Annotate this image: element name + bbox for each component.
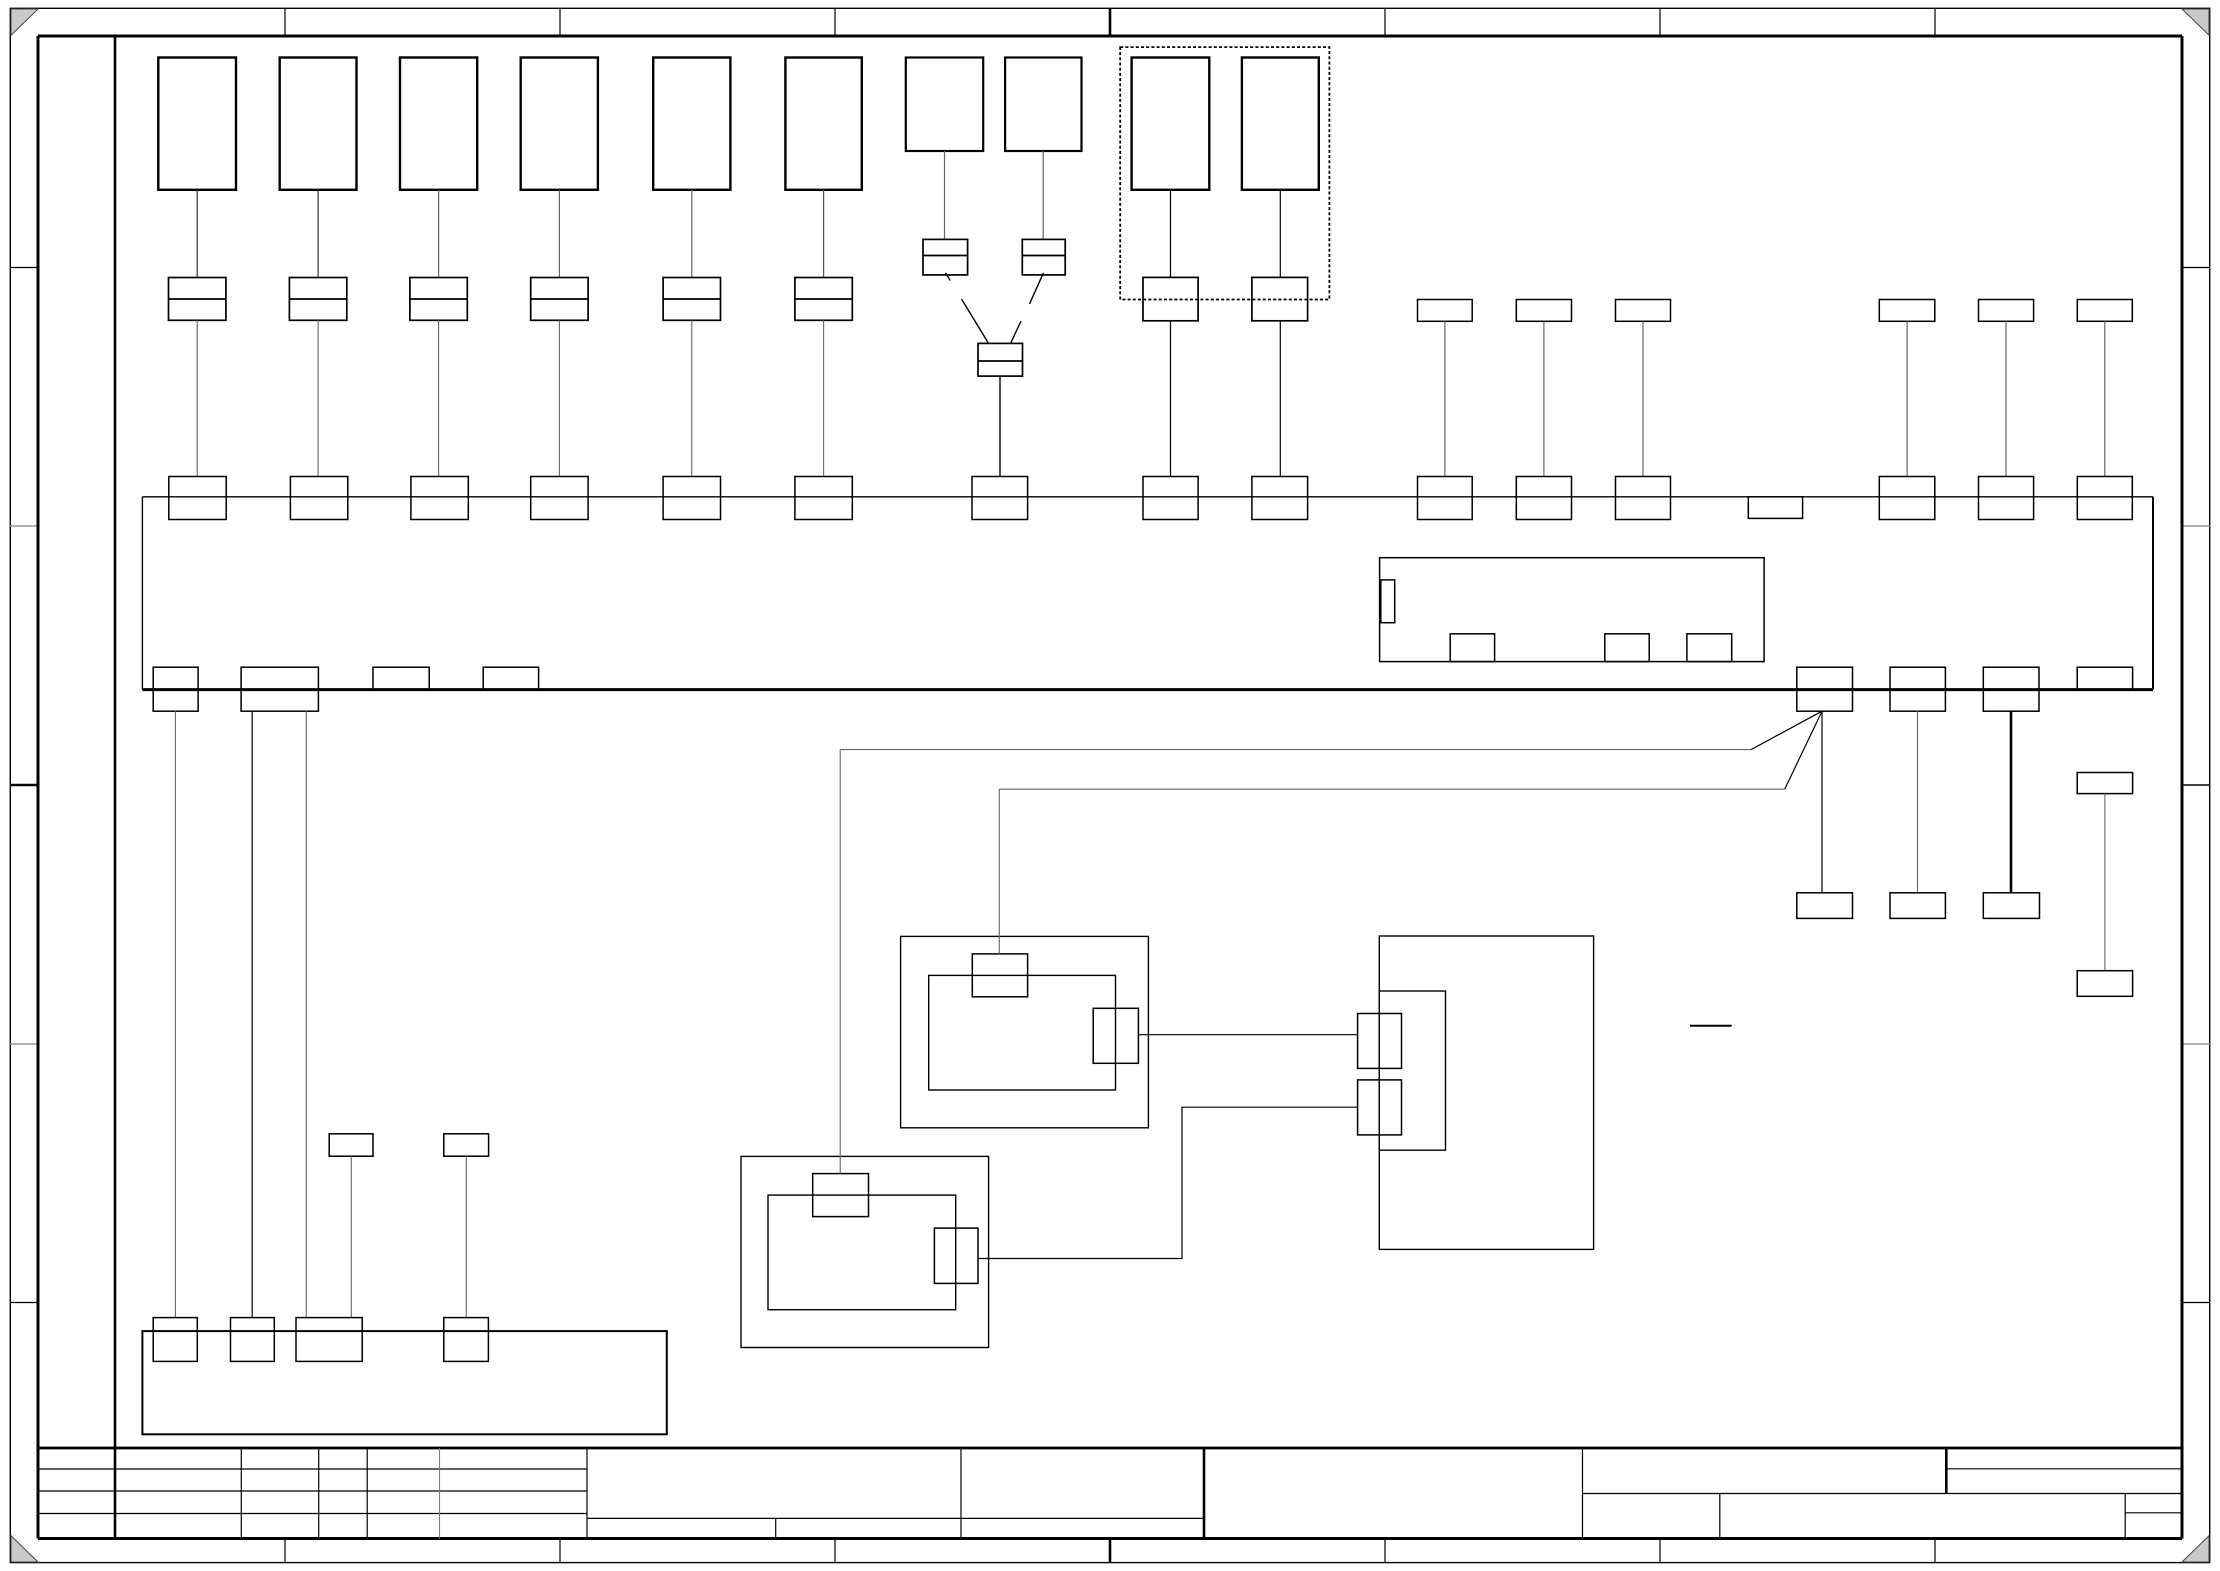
title bottom row line mid section	[587, 1517, 1204, 1519]
bus bottom edge thick	[142, 688, 2153, 691]
terminal box T6	[2077, 300, 2132, 322]
bus inlet box X11	[1516, 477, 1571, 520]
title right upper row line	[1946, 1468, 2182, 1470]
fuse box F10	[1143, 277, 1198, 320]
device A side port	[1093, 1008, 1138, 1063]
PLC rack U1	[1380, 558, 1765, 662]
title right mid line	[1583, 1493, 2183, 1495]
corner triangle bottom-right	[2182, 1536, 2209, 1562]
wire M2 to F2	[317, 190, 319, 278]
wire S3 down	[2104, 794, 2106, 971]
bus inlet box X3	[411, 477, 468, 520]
PLC rack bottom notch 1	[1450, 634, 1494, 662]
motor block M1	[158, 58, 236, 190]
terminal box T2	[1516, 300, 1571, 322]
wire Y2 down left	[251, 711, 253, 1317]
wire F11 to bus	[1279, 321, 1281, 477]
motor block M10	[1242, 58, 1319, 190]
terminal Z1	[1797, 893, 1853, 919]
wire M9 to F10	[1170, 190, 1172, 278]
bus inlet box X10	[1418, 477, 1473, 520]
title col line d	[439, 1448, 441, 1539]
bus outlet box Y1	[153, 667, 198, 711]
motor block M2	[280, 58, 357, 190]
corner triangle bottom-left	[11, 1536, 38, 1562]
bus top edge	[142, 496, 2153, 498]
device C outer	[1379, 936, 1593, 1249]
title block top thick line	[38, 1447, 2182, 1450]
fuse F3	[410, 278, 467, 321]
title col line b	[318, 1448, 320, 1539]
fan diagonal upper	[1751, 711, 1822, 749]
title right lower row line	[2125, 1512, 2182, 1514]
spare box S3	[2077, 773, 2132, 794]
wire T4 to bus	[1906, 321, 1908, 476]
wire B to C	[978, 1107, 1357, 1258]
wire M5 to F5	[691, 190, 693, 278]
motor block M4	[521, 58, 598, 190]
top border zone ticks	[285, 8, 1935, 36]
terminal Z3	[1983, 893, 2039, 919]
title row line 1	[38, 1468, 587, 1470]
dotted enclosure group	[1120, 47, 1329, 299]
right border zone ticks	[2182, 268, 2210, 1303]
wire F5 to bus	[691, 320, 693, 476]
wire F1 to bus	[196, 320, 198, 476]
motor block M6	[785, 58, 861, 190]
device B side port	[934, 1228, 978, 1283]
bus inlet box X1	[169, 477, 226, 520]
left column divider	[114, 36, 117, 1539]
bus inlet box X5	[663, 477, 720, 520]
device A top port	[972, 954, 1027, 997]
bus outlet box Y7	[1983, 667, 2039, 711]
wire Y2 down right	[305, 711, 307, 1317]
bus inlet box X12	[1616, 477, 1671, 520]
ground bar terminal G2	[231, 1318, 275, 1362]
device C port 2	[1358, 1080, 1402, 1135]
terminal Z4	[2077, 971, 2132, 997]
device B inner	[768, 1195, 956, 1310]
fuse F8	[1022, 239, 1065, 275]
PLC rack left notch	[1381, 580, 1395, 623]
breaker diagonal left upper	[946, 273, 951, 281]
wire M1 to F1	[196, 190, 198, 278]
wire Y6 down	[1917, 711, 1919, 893]
bus inlet box X4	[531, 477, 588, 520]
wire T6 to bus	[2104, 321, 2106, 476]
wire M6 to F6	[823, 190, 825, 278]
wire T3 to bus	[1642, 321, 1644, 476]
corner triangle top-left	[11, 9, 38, 35]
load block M8	[1005, 58, 1081, 152]
wire M4 to F4	[558, 190, 560, 278]
wire F3 to bus	[438, 320, 440, 476]
terminal box T3	[1616, 300, 1671, 322]
fuse F7	[923, 239, 968, 275]
bus outlet half box Y4	[483, 667, 538, 689]
title col line k lower	[1719, 1494, 1721, 1539]
bus inlet box X2	[290, 477, 347, 520]
breaker diagonal left lower	[962, 299, 989, 343]
device A inner	[929, 975, 1116, 1090]
title row line 2	[38, 1490, 587, 1492]
fan diagonal lower	[1785, 711, 1822, 789]
wire Y7 down thick	[2010, 711, 2013, 893]
device C inner	[1379, 991, 1445, 1150]
fan horizontal lower	[999, 788, 1784, 790]
bus inlet box X9	[1252, 477, 1308, 520]
terminal box T5	[1979, 300, 2034, 322]
bus right edge	[2152, 497, 2154, 690]
bus outlet half box Y3	[373, 667, 429, 689]
stub dash near device C	[1690, 1025, 1732, 1027]
fuse F2	[289, 278, 346, 321]
fuse F6	[795, 278, 852, 321]
bus hanger box X13	[1748, 497, 1802, 519]
title col line c	[366, 1448, 368, 1539]
PLC rack bottom notch 2	[1605, 634, 1649, 662]
bus inlet box X14	[1879, 477, 1935, 520]
spare box S1	[329, 1134, 373, 1156]
fuse F5	[663, 278, 720, 321]
title col line j thick upper	[1945, 1448, 1948, 1494]
bus outlet half box Y8	[2077, 667, 2132, 689]
motor block M3	[400, 58, 477, 190]
title col line h thick	[1203, 1448, 1206, 1539]
device B outer	[741, 1156, 989, 1347]
bottom border zone ticks	[285, 1539, 1935, 1563]
bus inlet box X16	[2077, 477, 2132, 520]
wire S2 down	[465, 1156, 467, 1317]
wire F6 to bus	[823, 320, 825, 476]
load block M7	[906, 58, 983, 152]
fuse F1	[169, 278, 226, 321]
title col line e	[586, 1448, 588, 1539]
bus outlet box Y5	[1797, 667, 1853, 711]
wire T5 to bus	[2005, 321, 2007, 476]
wire M8 to F8	[1042, 151, 1044, 239]
fuse box F11	[1252, 277, 1308, 320]
breaker diagonal right upper	[1030, 273, 1044, 304]
ground bar terminal G3 wide	[296, 1318, 362, 1362]
wire S1 down	[350, 1156, 352, 1317]
fan horizontal upper	[840, 749, 1751, 751]
drop to device A	[998, 789, 1000, 954]
title col line g	[960, 1448, 962, 1539]
bus inlet box X6	[795, 477, 852, 520]
wire M3 to F3	[438, 190, 440, 278]
motor block M5	[653, 58, 730, 190]
motor block M9	[1132, 58, 1210, 190]
bus inlet box X15	[1979, 477, 2034, 520]
device A outer	[901, 936, 1149, 1127]
wire A to C	[1138, 1034, 1357, 1036]
ground bar terminal G4	[444, 1318, 489, 1362]
PLC rack bottom notch 3	[1687, 634, 1732, 662]
left border zone ticks	[10, 268, 38, 1303]
device C port 1	[1358, 1014, 1402, 1069]
bus outlet box Y2 wide	[241, 667, 318, 711]
wire F9 to bus	[999, 376, 1001, 476]
drop to device B	[839, 750, 841, 1174]
title col line m lower right	[2124, 1494, 2126, 1539]
tie fuse F9	[978, 343, 1023, 376]
title row line 3	[38, 1513, 587, 1515]
corner triangle top-right	[2182, 9, 2209, 35]
bus left edge	[141, 497, 143, 690]
ground bar terminal G1	[153, 1318, 197, 1362]
fuse F4	[531, 278, 588, 321]
wire F10 to bus	[1170, 321, 1172, 477]
device B top port	[813, 1174, 869, 1217]
terminal Z2	[1890, 893, 1945, 919]
title col line i	[1582, 1448, 1584, 1539]
terminal box T4	[1879, 300, 1935, 322]
wire T2 to bus	[1543, 321, 1545, 476]
title col line f bottom row only	[775, 1518, 777, 1538]
wire Y1 down	[174, 711, 176, 1317]
bus inlet box X7	[972, 477, 1028, 520]
bus outlet box Y6	[1890, 667, 1945, 711]
wire F2 to bus	[317, 320, 319, 476]
bus inlet box X8	[1143, 477, 1198, 520]
wire Y5 down	[1821, 711, 1823, 893]
wire M10 to F11	[1279, 190, 1281, 278]
wire F4 to bus	[558, 320, 560, 476]
title col line a	[240, 1448, 242, 1539]
spare box S2	[444, 1134, 489, 1156]
breaker diagonal right lower	[1011, 321, 1021, 343]
wire M7 to F7	[944, 151, 946, 239]
wire T1 to bus	[1444, 321, 1446, 476]
ground bar	[142, 1331, 666, 1434]
terminal box T1	[1418, 300, 1473, 322]
